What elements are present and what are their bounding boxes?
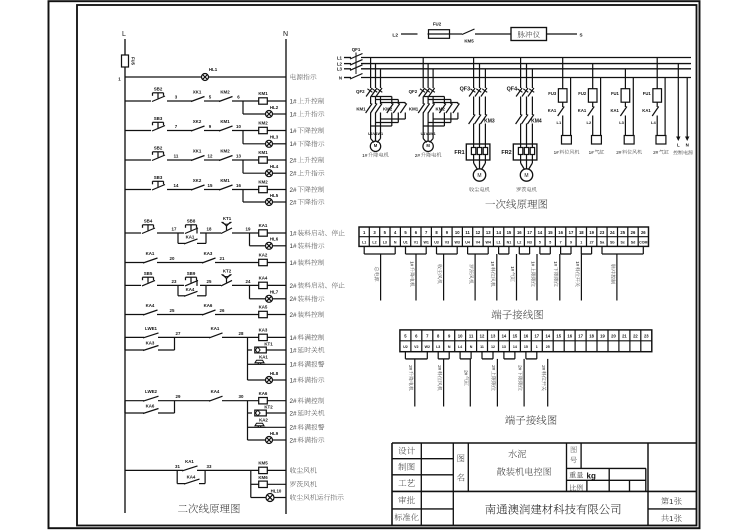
svg-text:M: M — [374, 143, 378, 148]
svg-text:W2: W2 — [425, 345, 430, 349]
svg-text:W4: W4 — [486, 240, 491, 244]
svg-text:15: 15 — [507, 230, 512, 235]
svg-text:HL5: HL5 — [270, 193, 279, 198]
svg-text:M: M — [426, 143, 430, 148]
svg-text:1#: 1# — [290, 347, 298, 354]
svg-text:LWE2: LWE2 — [145, 389, 158, 394]
svg-text:L3: L3 — [436, 345, 440, 349]
fuse FU2 — [428, 22, 451, 39]
svg-text:KM2: KM2 — [220, 149, 230, 154]
svg-text:COM: COM — [639, 240, 647, 244]
svg-text:KA1: KA1 — [548, 108, 557, 113]
svg-text:KA4: KA4 — [259, 276, 268, 281]
svg-text:KA4: KA4 — [187, 475, 196, 480]
svg-text:KA2: KA2 — [259, 253, 268, 258]
load branch 2#料位风机 with fuse FU1, contact KA1 — [611, 69, 642, 155]
svg-text:M: M — [477, 173, 481, 179]
title cell 重量 — [569, 472, 596, 481]
cable group 1#升降电机 — [406, 246, 427, 300]
svg-text:16: 16 — [236, 183, 241, 188]
svg-text:SB3: SB3 — [154, 116, 163, 121]
svg-text:13: 13 — [491, 334, 496, 339]
svg-text:FU3: FU3 — [548, 91, 557, 96]
label 2#上升指示 — [290, 170, 325, 178]
cable group 2#料位开关 — [526, 352, 548, 407]
svg-text:KM2: KM2 — [220, 90, 230, 95]
wire pulse circuit — [401, 33, 577, 35]
svg-text:19: 19 — [600, 334, 605, 339]
svg-text:2#: 2# — [290, 283, 298, 290]
label 1#下降指示 — [290, 140, 325, 148]
svg-text:SB9: SB9 — [187, 271, 196, 276]
svg-text:SB8: SB8 — [187, 219, 196, 224]
title row 工艺 — [398, 479, 414, 486]
cable group 2#上限限位 — [482, 352, 497, 407]
svg-text:2#: 2# — [290, 425, 298, 432]
node L2 (pulse circuit) — [392, 32, 398, 38]
svg-text:1#: 1# — [554, 150, 560, 155]
svg-text:KA4: KA4 — [211, 389, 220, 394]
label 2#装料指示 — [290, 296, 325, 304]
svg-text:KM5: KM5 — [258, 461, 268, 466]
svg-text:1#: 1# — [290, 362, 298, 369]
svg-text:2#: 2# — [290, 296, 298, 303]
svg-text:W1: W1 — [430, 132, 436, 136]
svg-text:N: N — [686, 142, 689, 147]
svg-text:HL10: HL10 — [271, 488, 282, 493]
svg-text:KA1: KA1 — [259, 354, 268, 359]
company name 南通澳润建材科技有限公司 — [485, 504, 620, 514]
rung with button SB3, contacts XK2 KM1, coil KM2 — [125, 116, 286, 147]
svg-text:KM1: KM1 — [258, 91, 268, 96]
svg-text:29: 29 — [176, 394, 181, 399]
svg-text:M: M — [524, 173, 528, 179]
svg-text:HL9: HL9 — [270, 431, 279, 436]
svg-text:25: 25 — [170, 308, 175, 313]
svg-text:1: 1 — [536, 345, 538, 349]
svg-text:26: 26 — [631, 230, 636, 235]
svg-text:KT2: KT2 — [223, 268, 232, 273]
rung dust/roots fans: contacts KA1 KA4 parallel, coils KM5 KM6, lamp HL10 — [125, 459, 286, 502]
svg-text:9: 9 — [570, 240, 572, 244]
svg-text:28: 28 — [239, 331, 244, 336]
svg-text:25: 25 — [546, 345, 550, 349]
svg-text:19: 19 — [246, 227, 251, 232]
svg-text:KA6: KA6 — [259, 391, 268, 396]
rung 1# loading control: contacts KA1 KA3, coil KA2 — [125, 251, 286, 266]
svg-text:17: 17 — [578, 334, 583, 339]
load branch 1#气缸 with fuse FU2, contact KA1 — [578, 64, 604, 155]
bus lines L1 L2 L3 N — [337, 55, 691, 80]
svg-text:KA1: KA1 — [611, 108, 620, 113]
svg-text:KM5: KM5 — [464, 39, 474, 44]
svg-text:27: 27 — [176, 331, 181, 336]
svg-text:QF4: QF4 — [507, 87, 517, 93]
svg-text:HL4: HL4 — [270, 164, 279, 169]
cable group 1#气缸 — [510, 246, 530, 300]
cable group 1#料位开关 — [575, 246, 592, 300]
svg-text:2#: 2# — [541, 365, 546, 371]
svg-text:L1: L1 — [337, 55, 343, 60]
svg-text:2#: 2# — [437, 365, 442, 371]
title cell 图号 — [570, 446, 576, 463]
svg-text:L1: L1 — [496, 240, 500, 244]
svg-text:2#: 2# — [464, 370, 469, 376]
terminal strip 1 — [359, 227, 649, 246]
svg-text:kg: kg — [587, 472, 596, 481]
svg-text:2#: 2# — [415, 153, 421, 159]
svg-text:KA3: KA3 — [204, 251, 213, 256]
svg-text:HL6: HL6 — [270, 237, 279, 242]
svg-text:18: 18 — [207, 227, 212, 232]
rung with button SB2, contacts XK1 KM2, coil KM1 — [125, 146, 286, 177]
svg-text:Sc: Sc — [620, 240, 624, 244]
sheet total 共1张 — [661, 514, 681, 523]
svg-text:14: 14 — [538, 230, 543, 235]
svg-text:L3: L3 — [337, 67, 343, 72]
svg-text:15: 15 — [513, 334, 518, 339]
svg-text:KA4: KA4 — [186, 287, 195, 292]
drawing name 水泥散装机电控图 — [497, 450, 551, 476]
svg-text:N: N — [283, 31, 288, 38]
svg-text:HL7: HL7 — [270, 290, 279, 295]
svg-text:11: 11 — [465, 230, 470, 235]
svg-text:20: 20 — [170, 256, 175, 261]
svg-text:10: 10 — [236, 124, 241, 129]
svg-text:14: 14 — [502, 334, 507, 339]
svg-text:FU2: FU2 — [433, 22, 442, 27]
svg-text:16: 16 — [517, 230, 522, 235]
label 收尘风机 — [290, 467, 317, 473]
svg-text:12: 12 — [208, 154, 213, 159]
label 1#下降控制 — [290, 127, 325, 135]
svg-text:KM4: KM4 — [531, 119, 542, 125]
svg-text:QF2: QF2 — [356, 89, 365, 94]
svg-text:FR2: FR2 — [501, 150, 511, 156]
svg-text:15: 15 — [548, 230, 553, 235]
node 1 — [118, 77, 121, 82]
svg-text:21: 21 — [220, 256, 225, 261]
svg-text:15: 15 — [556, 334, 561, 339]
svg-text:19: 19 — [589, 230, 594, 235]
svg-text:23: 23 — [600, 230, 605, 235]
svg-text:V4: V4 — [476, 240, 480, 244]
fuse FU5 — [122, 55, 136, 67]
svg-text:HL3: HL3 — [270, 135, 279, 140]
contact KM5 (pulse) — [462, 29, 475, 44]
title row 标准化 — [395, 513, 419, 521]
rung 1# loading start/stop: buttons SB4 SB8, KT1 contact, coil KA1 — [125, 216, 286, 249]
svg-text:KA3: KA3 — [146, 341, 155, 346]
svg-text:2#: 2# — [653, 150, 659, 155]
svg-text:1#: 1# — [530, 261, 535, 267]
svg-text:N1: N1 — [507, 240, 512, 244]
svg-text:1#: 1# — [553, 261, 558, 267]
cable group 1#料位风机 — [490, 246, 509, 300]
svg-text:KM1: KM1 — [220, 119, 230, 124]
svg-text:N: N — [339, 75, 342, 80]
svg-text:25: 25 — [620, 230, 625, 235]
svg-text:L3: L3 — [619, 120, 624, 125]
svg-text:12: 12 — [480, 334, 485, 339]
cable group 2#下限限位 — [504, 352, 524, 407]
terminal strip 2 — [400, 330, 652, 352]
label 1#上升指示 — [290, 111, 325, 119]
svg-text:20: 20 — [611, 334, 616, 339]
motor branch 收尘电机 with breaker QF3, contactor KM3, overload FR1 — [454, 58, 494, 192]
svg-text:14: 14 — [174, 183, 179, 188]
label 1#料满控制 — [290, 334, 325, 342]
title row 设计 — [398, 447, 415, 455]
svg-text:FU1: FU1 — [643, 91, 652, 96]
load branch 1#料位风机 with fuse FU3, contact KA1 — [548, 58, 579, 155]
cable group 收尘风机 — [437, 246, 458, 300]
rung 2# loading start/stop: buttons SB5 SB9, KT2 contact, coil KA4 — [125, 268, 286, 302]
svg-text:2#: 2# — [290, 171, 298, 178]
svg-text:KA6: KA6 — [204, 303, 213, 308]
svg-text:1#: 1# — [290, 377, 298, 384]
svg-text:13: 13 — [236, 154, 241, 159]
svg-text:SB4: SB4 — [144, 219, 153, 224]
svg-text:KA1: KA1 — [259, 223, 268, 228]
svg-text:2#: 2# — [290, 312, 298, 319]
svg-text:1#: 1# — [290, 141, 298, 148]
svg-text:18: 18 — [589, 334, 594, 339]
svg-text:KT2: KT2 — [264, 404, 273, 409]
svg-text:U1: U1 — [403, 240, 408, 244]
label 1#上升控制 — [290, 98, 325, 106]
cable group 罗茨风机 — [468, 246, 489, 300]
caption 端子接线图 (strip 1) — [492, 310, 543, 320]
svg-text:30: 30 — [239, 394, 244, 399]
label 收尘风机运行指示 — [290, 494, 344, 500]
svg-text:1#: 1# — [490, 261, 495, 267]
svg-text:11: 11 — [480, 345, 484, 349]
svg-text:26: 26 — [220, 308, 225, 313]
svg-text:23: 23 — [172, 279, 177, 284]
svg-text:KA6: KA6 — [146, 404, 155, 409]
svg-text:SB3: SB3 — [154, 175, 163, 180]
svg-text:S: S — [579, 33, 582, 38]
motor branch 罗茨电机 with breaker QF4, contactor KM4, overload FR2 — [501, 58, 541, 192]
svg-text:KA5: KA5 — [259, 305, 268, 310]
svg-text:L4: L4 — [458, 345, 462, 349]
caption 端子接线图 (strip 2) — [505, 415, 556, 425]
node N (right rail label) — [283, 31, 288, 38]
svg-text:17: 17 — [527, 230, 532, 235]
svg-text:L2: L2 — [392, 32, 398, 38]
svg-text:N3: N3 — [527, 240, 532, 244]
label 2#装料控制 — [290, 311, 325, 319]
caption 二次线原理图 — [178, 504, 240, 514]
pulse instrument 脉冲仪 — [511, 28, 547, 41]
node S — [579, 33, 582, 38]
svg-text:17: 17 — [569, 230, 574, 235]
svg-text:22: 22 — [633, 334, 638, 339]
svg-text:11: 11 — [174, 154, 179, 159]
svg-text:N: N — [470, 345, 473, 349]
svg-text:QF3: QF3 — [460, 87, 470, 93]
svg-text:KM1: KM1 — [220, 178, 230, 183]
svg-text:1#: 1# — [290, 243, 298, 250]
svg-text:SB2: SB2 — [154, 87, 163, 92]
svg-text:14: 14 — [496, 230, 501, 235]
svg-text:16: 16 — [567, 334, 572, 339]
svg-text:Sb: Sb — [610, 240, 615, 244]
svg-text:KM2: KM2 — [258, 121, 268, 126]
label 1#装料启动、停止 — [290, 230, 345, 238]
label 电源指示 — [290, 74, 316, 80]
svg-text:14: 14 — [513, 345, 517, 349]
svg-text:HL8: HL8 — [270, 371, 279, 376]
svg-text:L4: L4 — [651, 120, 656, 125]
svg-text:L2: L2 — [517, 240, 521, 244]
svg-text:XK2: XK2 — [193, 119, 202, 124]
label 1#料满报警 — [290, 361, 325, 369]
title row 制图 — [398, 463, 414, 471]
svg-text:1#: 1# — [575, 261, 580, 267]
svg-text:QF2: QF2 — [409, 89, 418, 94]
svg-text:2#: 2# — [290, 437, 298, 444]
label 1#装料控制 — [290, 259, 325, 267]
svg-text:V3: V3 — [445, 240, 449, 244]
svg-text:L2: L2 — [372, 240, 376, 244]
motor branch 2#升降电机 with breaker QF2, contactors KM1 KM2 — [409, 58, 460, 159]
svg-text:KA2: KA2 — [259, 417, 268, 422]
control power tap 控制电源 — [673, 64, 693, 155]
label 2#装料启动、停止 — [290, 282, 345, 290]
label 2#下降指示 — [290, 199, 325, 207]
svg-text:1#: 1# — [290, 230, 298, 237]
rung with button SB2, contacts XK1 KM2, coil KM1 — [125, 87, 286, 118]
svg-text:16: 16 — [524, 334, 529, 339]
svg-text:KA4: KA4 — [146, 303, 155, 308]
sheet number 第1张 — [661, 497, 682, 506]
svg-text:W1: W1 — [377, 132, 383, 136]
svg-text:SB2: SB2 — [154, 146, 163, 151]
wire N rail — [285, 39, 287, 514]
svg-text:KA1: KA1 — [211, 326, 220, 331]
svg-text:XK1: XK1 — [193, 149, 202, 154]
svg-text:1#: 1# — [290, 111, 298, 118]
wire L rail — [124, 39, 126, 513]
svg-text:10: 10 — [458, 334, 463, 339]
svg-text:L2: L2 — [587, 120, 592, 125]
svg-text:V1: V1 — [414, 240, 418, 244]
svg-text:U2: U2 — [403, 345, 408, 349]
title col 图名 — [457, 454, 465, 481]
svg-text:2#: 2# — [616, 150, 622, 155]
svg-text:Sd: Sd — [631, 240, 636, 244]
svg-text:14: 14 — [545, 334, 550, 339]
cable group 2#升降电机 — [405, 352, 427, 407]
rung with button SB3, contacts XK2 KM1, coil KM2 — [125, 175, 286, 206]
label 2#料满指示 — [290, 437, 325, 445]
lamp HL1 — [202, 67, 218, 81]
svg-text:QF1: QF1 — [352, 47, 361, 52]
label 罗茨风机 — [290, 481, 317, 487]
svg-text:L1: L1 — [557, 120, 562, 125]
svg-text:1#: 1# — [510, 266, 515, 272]
svg-text:KM1: KM1 — [258, 150, 268, 155]
svg-text:KA1: KA1 — [642, 108, 651, 113]
svg-text:HL2: HL2 — [270, 105, 279, 110]
svg-text:1#: 1# — [409, 261, 414, 267]
motor branch 1#升降电机 with breaker QF2, contactors KM1 KM2 — [356, 58, 407, 159]
svg-text:N: N — [448, 345, 451, 349]
label 2#料满控制 — [290, 397, 325, 405]
svg-text:1: 1 — [669, 497, 673, 506]
svg-text:1#: 1# — [362, 153, 368, 159]
load branch 2#气缸 with fuse FU1, contact KA1 — [642, 58, 668, 155]
svg-text:1#: 1# — [290, 128, 298, 135]
svg-text:L3: L3 — [383, 240, 387, 244]
svg-text:18: 18 — [579, 230, 584, 235]
svg-text:FU5: FU5 — [131, 57, 136, 66]
svg-text:2#: 2# — [408, 365, 413, 371]
svg-text:N: N — [394, 240, 397, 244]
svg-text:XK1: XK1 — [193, 90, 202, 95]
wire rung 1 — [125, 76, 286, 78]
svg-text:27: 27 — [590, 240, 594, 244]
svg-text:L: L — [677, 142, 680, 147]
svg-text:13: 13 — [486, 230, 491, 235]
label 2#下降控制 — [290, 186, 325, 194]
svg-text:2#: 2# — [290, 398, 298, 405]
svg-text:16: 16 — [558, 230, 563, 235]
caption 一次线原理图 — [486, 199, 548, 209]
svg-text:KM1: KM1 — [409, 107, 419, 112]
label 1#料满指示 — [290, 377, 325, 385]
svg-text:10: 10 — [455, 230, 460, 235]
svg-text:LWE1: LWE1 — [145, 326, 158, 331]
svg-text:23: 23 — [644, 334, 649, 339]
svg-text:2#: 2# — [491, 365, 496, 371]
cable group 1#上限限位 — [530, 246, 550, 300]
svg-text:31: 31 — [175, 464, 180, 469]
svg-text:1#: 1# — [589, 150, 595, 155]
svg-text:1#: 1# — [290, 98, 298, 105]
svg-text:FU2: FU2 — [578, 91, 587, 96]
label 2#延时关机 — [290, 410, 325, 418]
svg-text:KA1: KA1 — [186, 234, 195, 239]
svg-text:13: 13 — [502, 345, 506, 349]
svg-text:L: L — [122, 31, 126, 38]
svg-text:KT1: KT1 — [223, 216, 232, 221]
svg-text:5: 5 — [549, 240, 551, 244]
svg-text:21: 21 — [622, 334, 627, 339]
svg-text:KA1: KA1 — [185, 459, 194, 464]
label 1#延时关机 — [290, 347, 325, 355]
svg-text:25: 25 — [207, 279, 212, 284]
cable group 1#下限限位 — [553, 246, 571, 300]
cable group 脉冲控制 — [602, 246, 643, 300]
rung 2# loading control: contacts KA4 KA6, coil KA5 — [125, 303, 286, 318]
svg-text:2#: 2# — [290, 157, 298, 164]
breaker QF1 — [350, 47, 363, 79]
svg-text:5: 5 — [539, 240, 541, 244]
svg-text:12: 12 — [491, 345, 495, 349]
svg-text:KM1: KM1 — [356, 107, 366, 112]
svg-text:U4: U4 — [465, 240, 470, 244]
svg-text:15: 15 — [208, 183, 213, 188]
svg-text:KA1: KA1 — [146, 251, 155, 256]
svg-text:U3: U3 — [434, 240, 439, 244]
svg-text:1#: 1# — [290, 335, 298, 342]
svg-text:W3: W3 — [455, 240, 460, 244]
svg-text:SB5: SB5 — [144, 271, 153, 276]
svg-text:1: 1 — [580, 240, 582, 244]
